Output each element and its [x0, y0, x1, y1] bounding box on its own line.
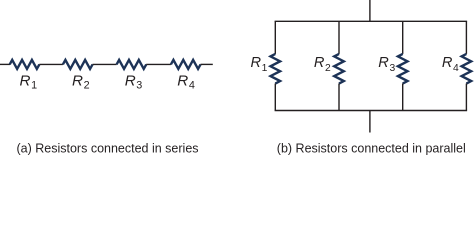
resistor R3	[398, 54, 408, 84]
svg-text:R1: R1	[251, 55, 268, 74]
wire	[146, 63, 171, 65]
wire top rail	[275, 20, 468, 22]
wire bottom lead	[369, 111, 371, 133]
wire	[39, 63, 63, 65]
wire branch 4 top	[465, 21, 467, 54]
wire branch 3 top	[402, 21, 404, 54]
svg-text:(b) Resistors connected in par: (b) Resistors connected in parallel	[277, 141, 466, 155]
wire top lead	[369, 0, 371, 21]
svg-text:R3: R3	[378, 55, 395, 74]
resistor R1	[10, 60, 40, 69]
resistor R4	[171, 60, 201, 69]
label R3	[378, 55, 395, 74]
wire branch 4 bottom	[465, 84, 467, 111]
label R4	[177, 72, 195, 91]
wire branch 1 bottom	[274, 84, 276, 111]
wire branch 1 top	[274, 21, 276, 54]
resistor R2	[63, 60, 93, 69]
resistor R4	[462, 54, 472, 84]
resistor R3	[117, 60, 147, 69]
parallel circuit (b)	[271, 0, 472, 133]
label R2	[314, 55, 331, 74]
svg-text:R4: R4	[177, 72, 195, 91]
wire	[93, 63, 117, 65]
wire branch 2 top	[338, 21, 340, 54]
svg-text:R2: R2	[72, 72, 90, 91]
caption (a)	[17, 141, 199, 155]
caption (b)	[277, 141, 466, 155]
label R1	[251, 55, 268, 74]
resistor R2	[334, 54, 344, 84]
label R4	[442, 55, 459, 74]
label R1	[20, 72, 38, 91]
svg-text:R1: R1	[20, 72, 38, 91]
wire	[201, 63, 213, 65]
svg-text:R2: R2	[314, 55, 331, 74]
label R3	[125, 72, 143, 91]
wire branch 3 bottom	[402, 84, 404, 111]
wire branch 2 bottom	[338, 84, 340, 111]
wire	[0, 63, 10, 65]
resistor R1	[271, 54, 281, 84]
series circuit (a)	[0, 60, 213, 69]
svg-text:(a) Resistors connected in ser: (a) Resistors connected in series	[17, 141, 199, 155]
label R2	[72, 72, 90, 91]
wire bottom rail	[275, 110, 468, 112]
svg-text:R3: R3	[125, 72, 143, 91]
svg-text:R4: R4	[442, 55, 459, 74]
